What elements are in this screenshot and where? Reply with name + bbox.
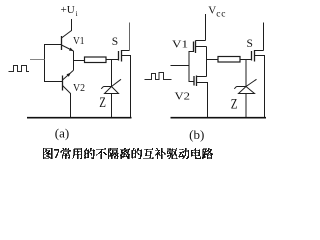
svg-text:V2: V2 [73, 82, 85, 94]
svg-text:V1: V1 [172, 39, 188, 51]
svg-text:V: V [208, 5, 216, 17]
svg-text:(a): (a) [55, 125, 69, 140]
svg-text:V2: V2 [175, 91, 191, 103]
svg-text:Z: Z [231, 96, 238, 112]
svg-text:S: S [112, 36, 118, 48]
svg-text:S: S [247, 38, 253, 50]
svg-text:cc: cc [216, 9, 226, 19]
svg-text:(b): (b) [189, 127, 204, 142]
svg-text:Z: Z [99, 95, 106, 111]
svg-text:i: i [76, 9, 78, 18]
svg-text:+U: +U [61, 4, 75, 16]
svg-text:V1: V1 [73, 35, 85, 47]
